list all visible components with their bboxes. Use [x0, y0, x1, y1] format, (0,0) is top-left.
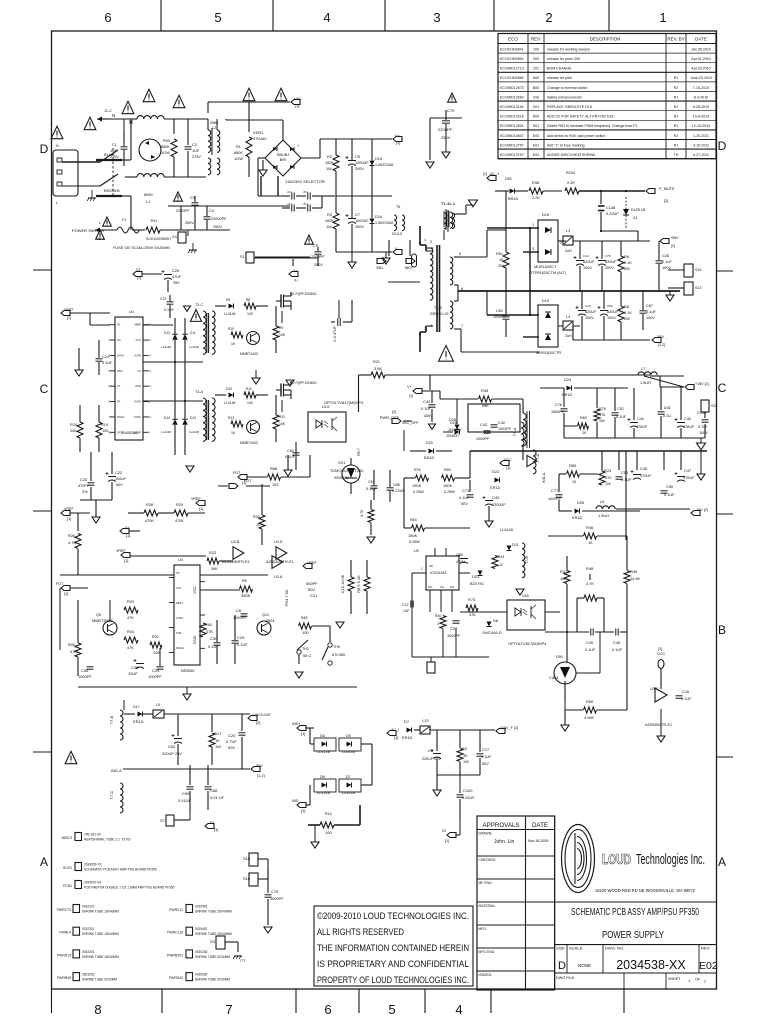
svg-text:C9: C9 — [428, 748, 433, 753]
svg-text:LL4148: LL4148 — [224, 401, 236, 405]
svg-text:R76: R76 — [414, 468, 421, 472]
svg-text:ECOCHN2851: ECOCHN2851 — [500, 57, 524, 61]
svg-text:R30: R30 — [253, 515, 260, 519]
svg-text:50V: 50V — [228, 745, 235, 750]
svg-text:2: 2 — [704, 980, 706, 984]
svg-text:C53: C53 — [621, 470, 629, 475]
svg-text:100K: 100K — [325, 161, 334, 165]
svg-text:KA0525A: KA0525A — [122, 431, 138, 435]
svg-text:[1,2]: [1,2] — [257, 773, 265, 778]
svg-text:REST: REST — [176, 601, 183, 605]
svg-text:470PF: 470PF — [78, 484, 90, 488]
svg-text:D24: D24 — [564, 377, 572, 382]
svg-text:T7-B: T7-B — [525, 556, 529, 564]
svg-text:15: 15 — [148, 338, 151, 342]
svg-text:470UF: 470UF — [640, 474, 652, 478]
svg-text:BRI: BRI — [280, 158, 286, 162]
svg-text:C00: C00 — [533, 95, 540, 99]
svg-text:10-8-2010: 10-8-2010 — [693, 115, 709, 119]
svg-text:[1]: [1] — [295, 104, 299, 108]
svg-text:560PF: 560PF — [306, 581, 318, 586]
svg-text:MFG:: MFG: — [479, 927, 488, 931]
svg-text:10: 10 — [572, 480, 576, 484]
svg-text:100: 100 — [533, 47, 539, 51]
svg-text:D: D — [40, 142, 49, 156]
svg-text:T7-E: T7-E — [109, 715, 114, 724]
svg-text:2W: 2W — [498, 264, 504, 268]
svg-text:V+: V+ — [293, 269, 297, 273]
svg-text:Add shrink to R45; add power s: Add shrink to R45; add power switch. — [547, 134, 606, 138]
svg-text:D?: D? — [404, 719, 410, 724]
svg-text:Y+: Y+ — [125, 526, 130, 530]
svg-text:CONT: CONT — [176, 616, 184, 620]
svg-text:SCK10205MSY: SCK10205MSY — [146, 237, 172, 241]
svg-text:SRN40-19: SRN40-19 — [430, 311, 448, 316]
svg-text:MMBT4403: MMBT4403 — [240, 352, 258, 356]
svg-text:1.5UH: 1.5UH — [598, 514, 609, 518]
svg-text:2W: 2W — [624, 317, 630, 321]
svg-text:DESCRIPTION: DESCRIPTION — [590, 37, 621, 42]
svg-text:[1]: [1] — [301, 731, 305, 736]
svg-text:Delete R93 to increase PWM fre: Delete R93 to increase PWM frequency. Ch… — [547, 124, 638, 128]
svg-text:R75: R75 — [599, 407, 606, 411]
svg-text:OUTB: OUTB — [134, 353, 141, 357]
svg-text:IN-: IN- — [117, 323, 121, 327]
svg-text:4.99K: 4.99K — [584, 716, 594, 720]
svg-text:R04: R04 — [127, 630, 135, 634]
svg-text:2034538-XX: 2034538-XX — [616, 958, 686, 972]
svg-text:C42: C42 — [480, 422, 488, 427]
svg-text:R8: R8 — [624, 305, 629, 309]
svg-text:D17: D17 — [133, 705, 140, 709]
svg-text:OUT: OUT — [176, 586, 182, 590]
svg-text:release for proto 200: release for proto 200 — [547, 57, 580, 61]
svg-text:R65: R65 — [444, 468, 451, 472]
svg-text:R45: R45 — [205, 623, 212, 627]
svg-text:6: 6 — [324, 1002, 331, 1017]
svg-text:0.25W: 0.25W — [413, 490, 424, 494]
svg-text:100: 100 — [247, 312, 253, 316]
svg-text:U3-D: U3-D — [274, 540, 283, 544]
svg-text:1N4937: 1N4937 — [446, 434, 459, 438]
svg-text:/77: /77 — [240, 958, 245, 963]
svg-text:J4-2: J4-2 — [287, 202, 293, 206]
svg-text:DISCH: DISCH — [176, 646, 184, 650]
svg-text:C7: C7 — [355, 213, 360, 217]
svg-text:VREF: VREF — [116, 549, 126, 553]
svg-text:D/: D/ — [442, 828, 447, 833]
svg-text:ECOWD13757: ECOWD13757 — [500, 143, 524, 147]
svg-text:5.1K: 5.1K — [624, 261, 632, 265]
svg-text:OPTOLTV817(M)DIP4: OPTOLTV817(M)DIP4 — [324, 400, 364, 405]
svg-text:50V: 50V — [308, 587, 315, 592]
svg-text:C21: C21 — [160, 297, 167, 301]
svg-text:1W: 1W — [326, 225, 332, 229]
svg-text:C15: C15 — [585, 304, 591, 308]
svg-text:R8 5 6.1K: R8 5 6.1K — [356, 575, 361, 593]
svg-text:SHRINK TUBE 18X40MM: SHRINK TUBE 18X40MM — [82, 955, 119, 959]
svg-text:D8: D8 — [320, 775, 325, 779]
svg-text:[1]: [1] — [396, 141, 400, 145]
svg-text:PWRCT3: PWRCT3 — [57, 908, 71, 912]
svg-text:T1-A: T1-A — [434, 306, 442, 310]
svg-text:1W: 1W — [599, 419, 605, 423]
svg-text:47K: 47K — [127, 616, 134, 620]
svg-text:1.5KE200A: 1.5KE200A — [375, 221, 394, 225]
svg-text:C01: C01 — [533, 105, 540, 109]
svg-text:C20: C20 — [228, 733, 236, 738]
svg-text:R61: R61 — [496, 252, 503, 256]
svg-text:V1: V1 — [136, 268, 140, 272]
svg-text:R49: R49 — [630, 569, 637, 574]
svg-text:FB 7: FB 7 — [357, 448, 361, 456]
svg-text:R11: R11 — [246, 387, 252, 391]
svg-text:E01: E01 — [533, 143, 539, 147]
svg-text:100V: 100V — [583, 266, 592, 270]
svg-text:PCB1: PCB1 — [63, 884, 72, 888]
svg-text:©2009-2010 LOUD TECHNOLOGIES I: ©2009-2010 LOUD TECHNOLOGIES INC. — [317, 911, 469, 921]
svg-text:AC_1: AC_1 — [490, 172, 499, 176]
svg-text:C62: C62 — [168, 744, 176, 749]
svg-text:DLZ5.1B: DLZ5.1B — [631, 208, 646, 212]
svg-text:1W: 1W — [463, 760, 469, 764]
svg-text:BZX79C: BZX79C — [470, 582, 484, 586]
svg-text:100: 100 — [247, 401, 253, 405]
svg-text:0.1UF: 0.1UF — [481, 755, 492, 759]
svg-text:C24: C24 — [152, 668, 160, 673]
svg-text:39K: 39K — [211, 567, 218, 571]
svg-text:1: 1 — [421, 567, 423, 571]
svg-text:SHRINK TUBE 9X20MM: SHRINK TUBE 9X20MM — [82, 978, 117, 982]
svg-text:REV:: REV: — [701, 946, 710, 951]
svg-text:VDR1: VDR1 — [253, 131, 263, 135]
svg-text:R6: R6 — [242, 579, 247, 583]
svg-text:0.25W: 0.25W — [444, 490, 455, 494]
svg-text:0.1UF: 0.1UF — [681, 697, 692, 701]
svg-text:1-20-2011: 1-20-2011 — [693, 134, 709, 138]
svg-text:+55V: +55V — [670, 236, 679, 240]
svg-text:C5: C5 — [355, 155, 360, 159]
svg-text:[1]: [1] — [67, 316, 71, 320]
svg-text:ECO: ECO — [508, 37, 518, 42]
svg-text:50V: 50V — [482, 762, 489, 766]
svg-text:ECOWD12501: ECOWD12501 — [500, 124, 524, 128]
svg-text:0.1UF: 0.1UF — [621, 478, 632, 482]
svg-text:C44: C44 — [637, 417, 644, 421]
svg-text:1K: 1K — [588, 541, 593, 545]
svg-text:0.1uF: 0.1uF — [662, 260, 672, 264]
svg-text:V+: V+ — [395, 134, 401, 138]
svg-text:STPR1620CTW (ALT): STPR1620CTW (ALT) — [530, 271, 566, 275]
svg-text:100K: 100K — [325, 219, 334, 223]
svg-text:F1: F1 — [122, 218, 127, 222]
svg-text:1000PF: 1000PF — [551, 410, 565, 414]
svg-text:[1]: [1] — [242, 480, 246, 485]
svg-text:D41: D41 — [664, 406, 671, 410]
svg-text:C47: C47 — [684, 468, 691, 473]
svg-text:IS PROPRIETARY AND CONFIDENTIA: IS PROPRIETARY AND CONFIDENTIAL — [317, 959, 469, 969]
svg-text:0.01UF: 0.01UF — [462, 796, 475, 800]
svg-text:0.1UF: 0.1UF — [208, 644, 219, 649]
svg-text:DWG. NO.: DWG. NO. — [605, 946, 624, 951]
svg-text:CA01: CA01 — [549, 675, 559, 680]
svg-text:2: 2 — [560, 241, 562, 245]
svg-text:6: 6 — [104, 10, 111, 25]
svg-text:ER1D: ER1D — [490, 486, 500, 490]
svg-text:0030282: 0030282 — [195, 973, 208, 977]
svg-text:ECOCHN2841: ECOCHN2841 — [500, 47, 524, 51]
svg-text:MISC3: MISC3 — [62, 836, 72, 840]
svg-text:820UF: 820UF — [585, 310, 597, 314]
svg-text:TDMCR100-STD32: TDMCR100-STD32 — [330, 469, 364, 473]
svg-text:R2: R2 — [327, 155, 332, 159]
svg-text:0.1UF: 0.1UF — [585, 648, 596, 652]
svg-text:250V: 250V — [314, 263, 323, 267]
svg-text:POT: POT — [56, 582, 64, 586]
svg-text:S13: S13 — [695, 286, 701, 290]
svg-text:[1]: [1] — [64, 591, 68, 596]
svg-text:U3-A: U3-A — [274, 575, 283, 579]
svg-text:[1]: [1] — [294, 278, 298, 282]
svg-text:[1]: [1] — [445, 839, 449, 843]
svg-text:C43: C43 — [423, 399, 431, 404]
svg-text:S16: S16 — [695, 268, 701, 272]
svg-text:C52: C52 — [617, 407, 624, 411]
svg-text:100V: 100V — [662, 266, 671, 270]
svg-text:DZ2: DZ2 — [472, 575, 479, 579]
svg-text:D14: D14 — [164, 416, 170, 420]
svg-text:SIZE: SIZE — [556, 946, 565, 951]
svg-text:C: C — [718, 381, 727, 395]
svg-text:L7: L7 — [641, 367, 645, 371]
svg-text:5: 5 — [459, 252, 461, 256]
svg-text:L1: L1 — [146, 199, 151, 204]
svg-text:2: 2 — [430, 240, 432, 244]
svg-text:D50: D50 — [556, 655, 563, 659]
svg-text:R28: R28 — [146, 503, 153, 507]
svg-text:100V: 100V — [607, 316, 616, 320]
svg-text:R05: R05 — [68, 643, 75, 647]
svg-text:3: 3 — [532, 247, 534, 251]
svg-text:CS: CS — [440, 585, 444, 589]
svg-text:T3-C: T3-C — [195, 303, 203, 307]
svg-text:1000PF: 1000PF — [498, 427, 512, 431]
svg-text:9-28-2010: 9-28-2010 — [693, 105, 709, 109]
svg-text:1K: 1K — [231, 342, 236, 346]
svg-text:C87: C87 — [646, 304, 653, 308]
svg-text:RJ: RJ — [674, 95, 679, 99]
svg-text:0.1UF: 0.1UF — [664, 493, 675, 497]
svg-text:1000PF: 1000PF — [270, 897, 284, 901]
svg-text:8: 8 — [94, 1002, 101, 1017]
svg-text:[1]: [1] — [658, 647, 662, 651]
svg-text:RJ: RJ — [674, 76, 679, 80]
svg-text:LOUD: LOUD — [602, 851, 631, 868]
svg-text:ECOWD13118: ECOWD13118 — [500, 105, 524, 109]
svg-text:1UF: 1UF — [192, 149, 200, 153]
svg-text:C80: C80 — [607, 304, 613, 308]
svg-text:ER1D: ER1D — [133, 719, 144, 724]
svg-text:47K: 47K — [70, 649, 77, 654]
svg-text:D25: D25 — [577, 500, 585, 505]
svg-text:TH: TH — [674, 153, 679, 157]
svg-text:10: 10 — [582, 431, 586, 435]
svg-text:A: A — [40, 855, 48, 869]
svg-text:[1]: [1] — [137, 276, 141, 280]
svg-text:1UF: 1UF — [110, 149, 118, 153]
svg-text:D11: D11 — [190, 331, 196, 335]
svg-text:12-10-2010: 12-10-2010 — [692, 124, 710, 128]
svg-text:275V: 275V — [192, 155, 201, 159]
svg-text:14: 14 — [148, 353, 151, 357]
svg-text:PWRD13: PWRD13 — [57, 953, 71, 957]
svg-text:C4: C4 — [209, 209, 215, 213]
svg-text:0.1UF: 0.1UF — [459, 496, 470, 500]
svg-text:LL4148: LL4148 — [161, 430, 171, 434]
svg-text:U4: U4 — [178, 558, 184, 562]
svg-text:100V: 100V — [699, 431, 708, 435]
svg-text:220UF 25V: 220UF 25V — [422, 757, 441, 761]
svg-text:RJ: RJ — [674, 105, 679, 109]
svg-text:[1]: [1] — [126, 533, 130, 538]
svg-text:100V: 100V — [605, 266, 614, 270]
svg-text:P_MUTE: P_MUTE — [659, 187, 675, 191]
svg-text:VC: VC — [137, 369, 141, 373]
svg-text:L2: L2 — [212, 126, 216, 130]
svg-text:DSCH: DSCH — [117, 415, 124, 419]
svg-text:C6: C6 — [236, 608, 242, 613]
svg-text:J5-2: J5-2 — [303, 202, 309, 206]
svg-text:U5: U5 — [414, 549, 419, 553]
svg-text:+15V_F [2]: +15V_F [2] — [500, 726, 518, 730]
svg-text:ECOWD13797: ECOWD13797 — [500, 153, 524, 157]
svg-text:0030282: 0030282 — [195, 950, 208, 954]
svg-text:1000PF: 1000PF — [447, 634, 461, 638]
svg-text:470U: 470U — [456, 560, 465, 564]
svg-text:GND: GND — [135, 384, 141, 388]
svg-text:10: 10 — [148, 415, 151, 419]
svg-text:D9: D9 — [226, 298, 230, 302]
svg-text:R10: R10 — [228, 327, 234, 331]
svg-text:C70: C70 — [447, 108, 455, 113]
svg-text:E02: E02 — [533, 153, 539, 157]
svg-text:100: 100 — [302, 630, 309, 635]
svg-text:LL4148: LL4148 — [189, 430, 199, 434]
svg-text:N: N — [112, 113, 115, 118]
svg-text:55 C: 55 C — [303, 653, 311, 658]
svg-text:D10: D10 — [226, 387, 232, 391]
svg-text:Add "1" to fuse marking: Add "1" to fuse marking — [547, 143, 585, 147]
svg-text:C29: C29 — [237, 635, 245, 640]
svg-text:C88: C88 — [210, 788, 218, 793]
svg-text:0.10F: 0.10F — [421, 407, 431, 411]
svg-text:C20: C20 — [456, 553, 463, 557]
svg-text:03-5.5: 03-5.5 — [392, 232, 402, 236]
svg-text:D21: D21 — [512, 543, 519, 547]
svg-text:S15: S15 — [243, 856, 251, 861]
svg-text:390K: 390K — [241, 593, 251, 598]
svg-text:BOM CHANGE: BOM CHANGE — [547, 67, 572, 71]
svg-text:PCB FAB PS4 DOUBLE 1 OZ 1.6MM: PCB FAB PS4 DOUBLE 1 OZ 1.6MM AMP PSU BO… — [84, 886, 175, 890]
svg-text:J5-1: J5-1 — [303, 190, 309, 194]
svg-text:R44: R44 — [498, 555, 504, 559]
svg-text:+15V [2]: +15V [2] — [695, 382, 709, 386]
svg-text:ALL RIGHTS RESERVED: ALL RIGHTS RESERVED — [317, 927, 404, 937]
svg-text:D: D — [718, 139, 727, 153]
svg-text:June.23.2010: June.23.2010 — [690, 76, 712, 80]
svg-text:R48: R48 — [586, 566, 594, 571]
svg-text:C40: C40 — [492, 495, 500, 500]
svg-text:IND: IND — [292, 799, 299, 803]
svg-text:U13: U13 — [322, 405, 329, 409]
svg-text:820UF: 820UF — [583, 260, 595, 264]
svg-text:1000PF: 1000PF — [233, 615, 247, 620]
svg-text:PROPERTY OF LOUD TECHNOLOGIES: PROPERTY OF LOUD TECHNOLOGIES INC. — [317, 975, 469, 985]
svg-text:C9: C9 — [313, 244, 318, 248]
svg-text:A00: A00 — [533, 76, 539, 80]
svg-text:5.1K: 5.1K — [624, 311, 632, 315]
svg-text:D6: D6 — [320, 734, 325, 738]
svg-text:MFG ENG:: MFG ENG: — [479, 950, 496, 954]
svg-text:D16: D16 — [375, 215, 382, 219]
svg-text:VREF: VREF — [134, 323, 141, 327]
svg-text:0025451: 0025451 — [195, 905, 208, 909]
svg-text:C-0.47UF: C-0.47UF — [333, 325, 337, 342]
svg-text:150K: 150K — [443, 483, 453, 488]
svg-text:1W: 1W — [326, 167, 332, 171]
svg-text:1000PF: 1000PF — [493, 315, 507, 319]
svg-text:U1: U1 — [129, 309, 135, 314]
svg-text:100: 100 — [102, 429, 108, 433]
svg-text:ECOWD12670: ECOWD12670 — [500, 86, 524, 90]
svg-text:1N4744A-D: 1N4744A-D — [482, 631, 502, 635]
svg-text:[1]: [1] — [214, 827, 218, 832]
svg-text:OF: OF — [695, 978, 701, 982]
svg-text:680K: 680K — [234, 151, 243, 155]
svg-text:PWRR201: PWRR201 — [167, 953, 183, 957]
svg-text:250V: 250V — [213, 225, 222, 229]
svg-text:220UF 25V: 220UF 25V — [162, 751, 182, 756]
svg-text:Q1 FQPF12N60C: Q1 FQPF12N60C — [290, 292, 317, 296]
svg-text:D01: D01 — [533, 124, 540, 128]
svg-text:3: 3 — [433, 10, 440, 25]
svg-text:67L060: 67L060 — [332, 652, 346, 657]
svg-text:VREF: VREF — [64, 308, 74, 312]
svg-text:TH1: TH1 — [150, 219, 157, 223]
svg-text:1: 1 — [688, 979, 690, 983]
svg-text:L13: L13 — [422, 718, 429, 723]
svg-text:-15V [2]: -15V [2] — [695, 508, 708, 512]
svg-text:C30: C30 — [210, 636, 218, 641]
svg-text:RT: RT — [117, 400, 121, 404]
svg-text:LL4148: LL4148 — [189, 345, 199, 349]
svg-text:RJ: RJ — [674, 115, 679, 119]
svg-text:MUR1620CTR: MUR1620CTR — [536, 351, 561, 355]
svg-text:7-16-2010: 7-16-2010 — [693, 86, 709, 90]
svg-text:4.7K: 4.7K — [586, 582, 594, 586]
svg-text:RJ: RJ — [674, 143, 679, 147]
svg-text:R9: R9 — [279, 326, 283, 330]
svg-text:VCC: VCC — [657, 651, 665, 656]
svg-text:C28: C28 — [662, 254, 669, 258]
svg-text:6MH: 6MH — [144, 192, 153, 197]
svg-text:C3: C3 — [190, 196, 195, 200]
svg-text:SYNC: SYNC — [117, 353, 124, 357]
svg-text:0.7uF: 0.7uF — [698, 425, 708, 429]
svg-text:[1,2]: [1,2] — [658, 343, 665, 347]
svg-text:A: A — [718, 855, 726, 869]
svg-text:C12: C12 — [583, 254, 589, 258]
